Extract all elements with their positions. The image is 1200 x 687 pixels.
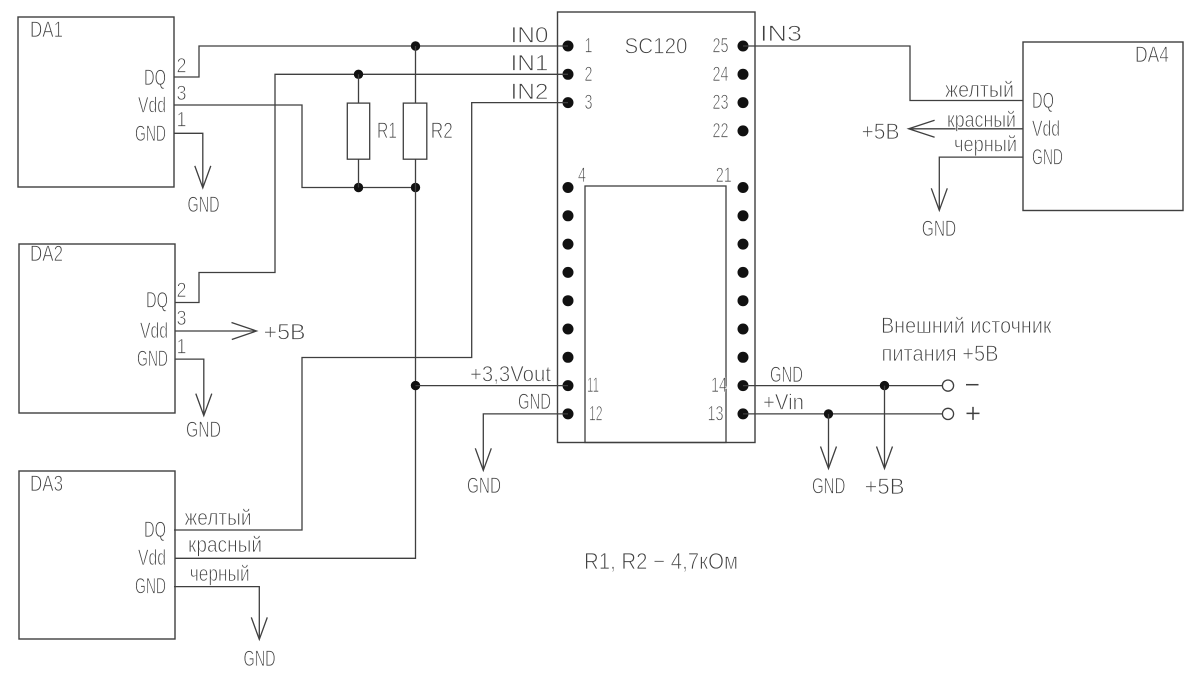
svg-text:25: 25 [713, 35, 729, 58]
wire DA2 Vdd stub to +5V arrow [175, 330, 256, 332]
wire +3,3Vout to SC120 pin 11 [416, 385, 569, 387]
svg-text:GND: GND [467, 473, 501, 498]
sensor DA3 box [19, 471, 175, 639]
SC120 pin 4 dot [563, 182, 574, 193]
wire DA2 GND stub [175, 359, 204, 415]
svg-text:1: 1 [177, 109, 187, 132]
SC120 pin 12 dot [563, 408, 574, 419]
SC120 pin 8 dot [563, 295, 574, 306]
wire DA1 DQ to SC120 pin 1 (net IN0) [174, 46, 568, 77]
SC120 pin 11 dot [563, 380, 574, 391]
SC120 pin 2 dot [563, 69, 574, 80]
svg-text:DA4: DA4 [1135, 42, 1169, 67]
arrow +5V DA4 [909, 120, 935, 137]
arrow down +5V net [877, 447, 893, 469]
SC120 pin 21 dot [738, 182, 749, 193]
svg-text:GND: GND [922, 216, 957, 241]
svg-text:+5В: +5В [264, 320, 306, 345]
node +Vin line junction [824, 409, 833, 418]
wire DA1 Vdd to resistor rail [174, 105, 416, 188]
svg-text:GND: GND [1032, 145, 1063, 170]
label minus [966, 384, 979, 386]
svg-text:2: 2 [177, 279, 187, 302]
resistor R1 [347, 103, 369, 159]
svg-text:24: 24 [713, 63, 729, 86]
SC120 pin 5 dot [563, 210, 574, 221]
svg-text:1: 1 [177, 336, 187, 359]
wire DA3 Vdd (красный) to +3,3V rail [175, 188, 416, 559]
ground arrow pin 12 [475, 448, 491, 470]
svg-text:Vdd: Vdd [138, 545, 166, 570]
svg-text:3: 3 [177, 82, 187, 105]
svg-text:13: 13 [708, 403, 724, 426]
svg-text:GND: GND [135, 574, 166, 599]
svg-text:4: 4 [578, 164, 586, 187]
SC120 pin 7 dot [563, 267, 574, 278]
svg-text:3: 3 [585, 91, 593, 114]
module SC120 inner rectangle [585, 186, 726, 443]
svg-text:14: 14 [711, 374, 727, 397]
svg-text:Внешний источник: Внешний источник [881, 313, 1052, 338]
ground arrow DA2 [196, 394, 212, 416]
wire R2 bottom lead [415, 159, 417, 187]
SC120 pin 13 dot [738, 408, 749, 419]
resistor R2 [403, 103, 427, 159]
node IN1-R1 junction [354, 70, 363, 79]
svg-text:красный: красный [188, 532, 262, 557]
svg-text:21: 21 [716, 164, 732, 187]
svg-text:1: 1 [585, 35, 593, 58]
wire SC120 pin 25 to DA4 DQ (net IN3) [743, 46, 1023, 101]
ground arrow DA1 [195, 166, 211, 188]
sensor DA2 box [19, 244, 175, 413]
SC120 pin 22 dot [738, 125, 749, 136]
SC120 pin 10 dot [563, 352, 574, 363]
svg-text:R1, R2 − 4,7кОм: R1, R2 − 4,7кОм [584, 548, 738, 574]
svg-text:Vdd: Vdd [138, 93, 166, 118]
svg-text:R2: R2 [431, 118, 453, 143]
SC120 pin 9 dot [563, 324, 574, 335]
node GND line junction [880, 381, 889, 390]
SC120 pin 14 dot [738, 380, 749, 391]
SC120 pin 19 dot [738, 239, 749, 250]
SC120 pin 25 dot [738, 41, 749, 52]
label plus [967, 407, 980, 420]
svg-text:Vdd: Vdd [140, 318, 168, 343]
svg-text:2: 2 [585, 63, 593, 86]
svg-text:DQ: DQ [144, 65, 166, 90]
svg-text:желтый: желтый [185, 505, 252, 530]
svg-text:GND: GND [518, 389, 551, 414]
svg-text:23: 23 [713, 91, 729, 114]
svg-text:GND: GND [770, 362, 803, 387]
svg-text:+5В: +5В [865, 474, 905, 499]
wire DA4 Vdd to +5V arrow [909, 128, 1023, 130]
wire R1 bottom lead [358, 159, 360, 187]
svg-text:черный: черный [190, 561, 250, 586]
svg-text:IN3: IN3 [760, 21, 802, 46]
ground arrow DA3 [251, 617, 267, 639]
SC120 pin 20 dot [738, 210, 749, 221]
svg-text:2: 2 [177, 55, 187, 78]
svg-text:питания +5В: питания +5В [882, 341, 999, 366]
wire DA3 DQ to SC120 pin 3 (net IN2) [174, 103, 568, 530]
svg-text:DQ: DQ [146, 288, 168, 313]
svg-text:IN0: IN0 [511, 22, 549, 47]
node IN0-R2 junction [411, 41, 420, 50]
svg-text:желтый: желтый [945, 77, 1014, 102]
svg-text:GND: GND [244, 646, 276, 671]
module SC120 outer box [558, 12, 756, 443]
svg-text:GND: GND [812, 474, 846, 499]
SC120 pin 24 dot [738, 69, 749, 80]
SC120 pin 16 dot [738, 324, 749, 335]
svg-text:DQ: DQ [1032, 88, 1054, 113]
ground arrow DA4 [931, 188, 947, 210]
svg-text:GND: GND [186, 417, 221, 442]
wire SC120 pin 12 to ground [483, 414, 568, 470]
terminal circle minus [942, 380, 953, 391]
svg-text:12: 12 [589, 403, 603, 426]
svg-text:GND: GND [135, 121, 166, 146]
svg-text:GND: GND [137, 346, 168, 371]
svg-text:+Vin: +Vin [763, 390, 804, 415]
node rail-R1 junction [354, 183, 363, 192]
wire DA2 DQ to SC120 pin 2 (net IN1) [175, 74, 568, 302]
wire R2 top lead [415, 46, 417, 103]
wire DA1 GND stub [174, 133, 203, 187]
wire junction drop to +5V arrow [884, 386, 886, 468]
svg-text:3: 3 [177, 307, 187, 330]
wire SC120 pin 14 (GND) to terminal [743, 385, 942, 387]
node +3,3Vout junction [411, 381, 420, 390]
wire DA4 GND (черный) stub [939, 157, 1023, 210]
wire DA3 GND (черный) stub [174, 587, 259, 639]
SC120 pin 18 dot [738, 267, 749, 278]
SC120 pin 15 dot [738, 352, 749, 363]
node rail-R2 junction [411, 183, 420, 192]
sensor DA4 box [1023, 42, 1183, 211]
svg-text:DA2: DA2 [30, 241, 63, 266]
svg-text:IN1: IN1 [511, 51, 549, 76]
SC120 pin 3 dot [563, 97, 574, 108]
svg-text:DQ: DQ [144, 517, 166, 542]
arrow down GND net [821, 447, 837, 469]
arrow +5V DA2 [232, 323, 257, 340]
svg-text:черный: черный [954, 132, 1017, 157]
wire SC120 pin 13 (+Vin) to terminal [743, 413, 942, 415]
SC120 pin 17 dot [738, 295, 749, 306]
sensor DA1 box [18, 17, 174, 187]
wire junction drop to GND arrow [828, 414, 830, 468]
svg-text:SC120: SC120 [625, 34, 688, 59]
wire R1 top lead [358, 74, 360, 103]
svg-text:11: 11 [587, 374, 599, 397]
SC120 pin 23 dot [738, 97, 749, 108]
svg-text:R1: R1 [377, 118, 397, 143]
svg-text:IN2: IN2 [511, 79, 549, 104]
svg-text:красный: красный [947, 107, 1016, 132]
svg-text:DA3: DA3 [30, 471, 63, 496]
svg-text:+5В: +5В [862, 119, 900, 144]
terminal circle plus [942, 408, 953, 419]
svg-text:Vdd: Vdd [1032, 116, 1060, 141]
svg-text:+3,3Vout: +3,3Vout [470, 362, 551, 387]
SC120 pin 6 dot [563, 239, 574, 250]
svg-text:22: 22 [713, 119, 729, 142]
SC120 pin 1 dot [563, 41, 574, 52]
svg-text:DA1: DA1 [30, 17, 63, 42]
svg-text:GND: GND [188, 192, 220, 217]
